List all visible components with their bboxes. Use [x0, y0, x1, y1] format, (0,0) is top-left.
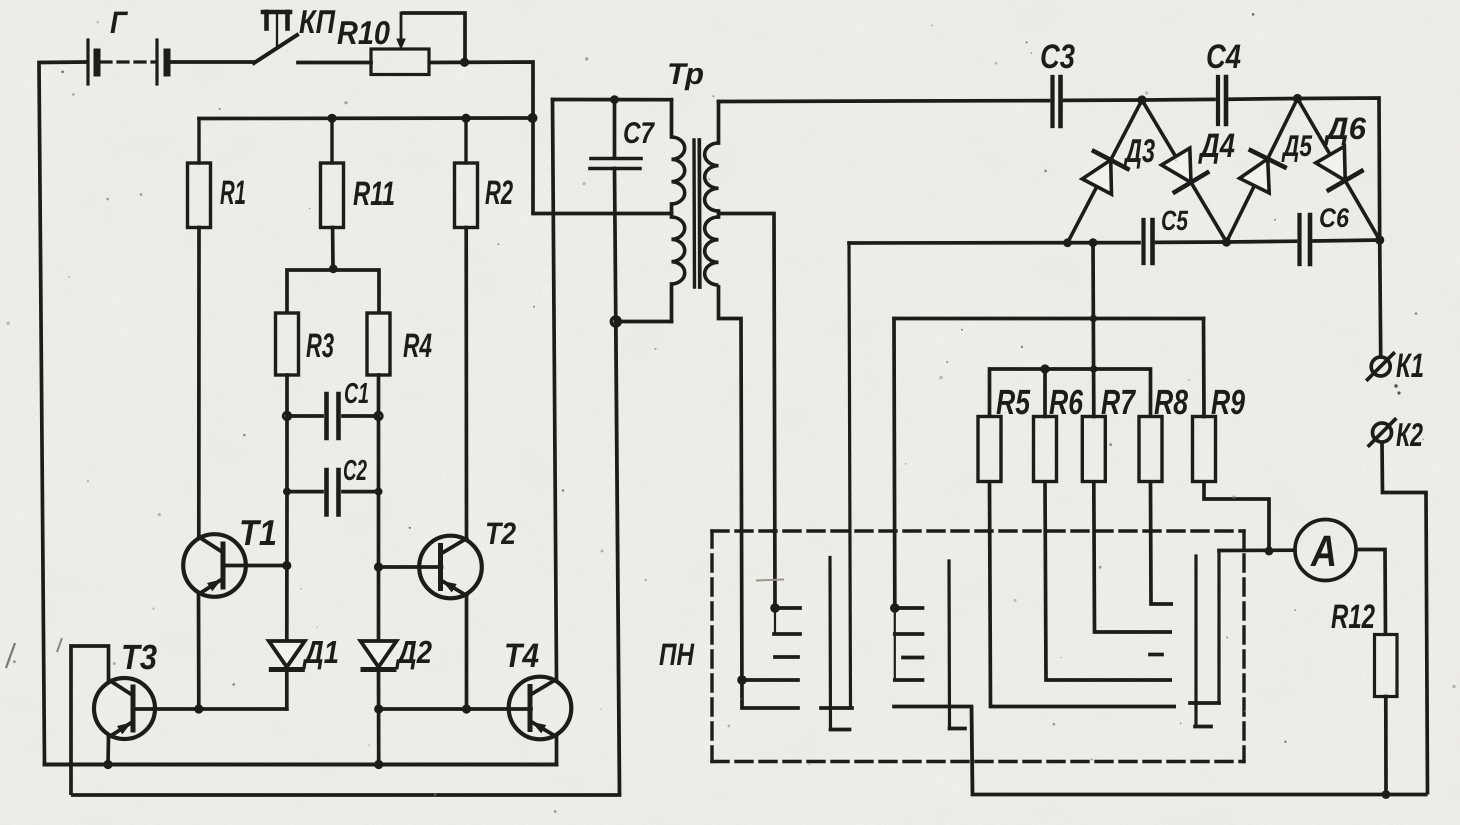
wire secondary tap to electrode pin [719, 214, 776, 609]
node top 2 (C4/Д5/Д6) [1293, 94, 1302, 103]
wire left rail (battery minus to bottom bus) [39, 62, 88, 765]
resistor R7 [1082, 417, 1105, 482]
wire centre tap line [533, 212, 672, 216]
junction R10 right terminal [460, 58, 469, 67]
wire right rail C2 to D2 [377, 492, 381, 641]
svg-text:Тр: Тр [667, 58, 704, 91]
transformer Тр secondary lead bottom [719, 285, 743, 708]
node R3/R4 split [329, 264, 338, 273]
svg-text:R2: R2 [485, 174, 513, 212]
wire primary top line [553, 98, 672, 102]
electrode group 2 plate A (from multiplier) [849, 243, 851, 708]
resistor R6 [1034, 417, 1057, 482]
wire T4 collector up to primary top [553, 100, 557, 680]
electrode group 3 pin bar d [895, 678, 923, 682]
wire R10 wiper loop to right terminal [401, 13, 465, 62]
battery Г cell 1 short plate [94, 52, 101, 73]
node R12 / bottom line [1382, 790, 1391, 799]
node bottom Д3 [1063, 238, 1072, 247]
transformer Тр primary winding lower half [672, 217, 685, 284]
svg-text:Д4: Д4 [1198, 127, 1235, 165]
wire T2 base [379, 565, 442, 569]
wire R1 to T1 collector [197, 228, 201, 538]
scan scratch bottom left [6, 643, 15, 668]
divider box ПН bottom edge (dashed) [712, 760, 1244, 763]
electrode group 4 plate B foot [1190, 701, 1219, 705]
svg-text:А: А [1310, 527, 1337, 576]
resistor R2 [464, 118, 467, 163]
capacitor C1 right lead [343, 414, 379, 418]
capacitor C2 left lead [287, 490, 322, 494]
wire T2 emitter down [465, 596, 469, 710]
svg-text:Д3: Д3 [1123, 132, 1155, 169]
wire T3 collector elbow [71, 646, 109, 795]
wire primary bottom link [616, 320, 672, 324]
scan smudge in ПН box [756, 580, 784, 581]
transformer Тр secondary tap stub [717, 211, 721, 217]
node C1 right [375, 412, 383, 420]
transformer Тр primary winding upper half [672, 137, 685, 204]
node R2 top [461, 114, 470, 123]
wire right cross-coupling rail C1-C2 [377, 416, 381, 492]
terminal К1 circle [1371, 357, 1390, 376]
wire feed node down to R7 [1091, 243, 1096, 417]
wire R7 bottom to gap stack [1094, 482, 1172, 633]
node bottom right (Д6/К1 feed) [1375, 235, 1384, 244]
electrode group 1 pin bar c (floating) [775, 655, 798, 659]
wire R2 to T2 collector [464, 228, 468, 539]
electrode group 3 pin bar a [899, 606, 922, 610]
node Д2 / T4 base [374, 704, 383, 713]
wire C3 to node [1065, 98, 1143, 102]
electrode group 4 plate A tick [1195, 725, 1211, 729]
transformer Тр primary lead bottom [670, 284, 674, 322]
electrode group 1 return bar [742, 678, 798, 682]
electrode group 2b plate foot [950, 727, 966, 731]
node group 1 return [737, 675, 747, 685]
electrode group 2 plate B [828, 558, 832, 730]
electrode group 4 plate A [1194, 556, 1197, 725]
svg-text:R9: R9 [1211, 383, 1245, 422]
svg-text:R1: R1 [220, 174, 246, 212]
transformer Тр secondary lead top [717, 102, 721, 144]
svg-text:Т3: Т3 [121, 638, 157, 677]
terminal К1 slash [1368, 354, 1394, 380]
node C1 left [283, 412, 291, 420]
diode Д2 [361, 641, 397, 667]
transformer Тр primary lead top [670, 100, 674, 137]
terminal К2 slash [1369, 420, 1395, 446]
wire secondary top line [719, 99, 1049, 104]
scan scratch near T3 [57, 638, 62, 652]
resistor R9 [1193, 417, 1216, 482]
wire R5-R8 top bus [990, 369, 1151, 417]
electrode group 2 plate A foot [821, 706, 852, 710]
wire R12 bottom [1384, 697, 1388, 795]
svg-text:R12: R12 [1331, 598, 1375, 636]
svg-text:С7: С7 [623, 117, 655, 150]
transformer Тр secondary winding lower half [705, 217, 719, 285]
capacitor C4 plates [1216, 77, 1220, 124]
electrode group 1 pin bar b [774, 632, 800, 636]
wire y318 right drop to R9 [1202, 319, 1206, 417]
switch КП push-button right leg [285, 12, 290, 29]
wire left cross-coupling rail C1-C2 [285, 416, 289, 492]
svg-text:R8: R8 [1154, 383, 1188, 422]
wire C6 to right node [1314, 240, 1380, 241]
node T1 base [282, 561, 291, 570]
node T3 base / T1 emitter [194, 704, 203, 713]
wire R5 bottom to gap stack [990, 482, 1177, 707]
svg-text:Г: Г [110, 5, 129, 40]
wire К2 to bottom right corner [1382, 442, 1428, 795]
diode Д3 [1068, 100, 1143, 243]
wire T1 base [223, 564, 287, 568]
svg-text:Т1: Т1 [239, 512, 277, 553]
electrode group 4 plate B [1217, 551, 1220, 704]
wire top right corner [1298, 98, 1380, 240]
junction bus / centre-tap feed [528, 113, 538, 123]
scan speckles [931, 24, 933, 26]
wire R6 bottom to gap stack [1045, 482, 1172, 681]
switch КП push-button cap [263, 10, 290, 15]
wire R3 to C1 node [285, 375, 289, 416]
svg-text:R5: R5 [996, 383, 1030, 422]
svg-text:R7: R7 [1101, 383, 1136, 422]
wire T4 emitter down [555, 738, 559, 765]
resistor R8 [1139, 417, 1162, 482]
electrode group 3 pin bar b [895, 632, 923, 636]
capacitor C2 right lead [343, 490, 379, 494]
svg-text:ПН: ПН [659, 637, 694, 672]
svg-text:К2: К2 [1396, 416, 1423, 453]
wire Д2 cathode down to bottom bus [377, 669, 381, 765]
electrode group 1 return plate [742, 706, 798, 710]
wire T3 emitter down [106, 737, 110, 765]
junction feed/y318 [1090, 315, 1097, 322]
wire bottom bus 1 (emitters) [45, 763, 557, 767]
node T2 base [374, 562, 383, 571]
node ammeter input [1265, 547, 1274, 556]
node Д2 / bottom bus [374, 760, 383, 769]
wire Д1 cathode to T3 base line [285, 669, 289, 709]
svg-text:С1: С1 [344, 378, 369, 410]
wire R11 to R3/R4 node [331, 228, 335, 269]
electrode group 2 plate B foot [831, 728, 850, 732]
ammeter A body [1295, 520, 1356, 581]
diode Д4 [1142, 100, 1227, 242]
svg-text:С4: С4 [1206, 38, 1241, 76]
wire C4 to node [1230, 97, 1298, 101]
terminal К2 circle [1373, 423, 1392, 442]
electrode group 1 pin bar a [780, 606, 801, 610]
electrode group 3 pin bar c (floating) [903, 656, 923, 660]
diode Д5 [1227, 99, 1298, 243]
resistor R5 [978, 417, 1001, 482]
node bottom feed (to divider chain) [1089, 238, 1098, 247]
electrode group 2b plate [947, 561, 951, 729]
electrode group 3 return plate [894, 705, 972, 709]
svg-text:Т2: Т2 [485, 516, 516, 551]
wire ammeter to R12 [1356, 550, 1386, 635]
transistor T4 [509, 677, 572, 740]
wire R4 to C1 node [377, 375, 381, 416]
wire battery to switch [167, 60, 254, 64]
svg-text:КП: КП [299, 3, 336, 40]
node R11 top [327, 114, 336, 123]
capacitor C7 bottom lead [615, 169, 616, 322]
battery Г cell 2 short plate [164, 52, 171, 73]
diode Д6 [1298, 99, 1380, 241]
scan specks under К1 [1394, 384, 1398, 388]
wire y318 left drop to electrode pin [892, 319, 896, 605]
wire switch to R10 [298, 61, 371, 65]
svg-text:С5: С5 [1161, 205, 1188, 236]
wire T1 emitter down [197, 594, 201, 709]
wire T3 base line [133, 707, 287, 711]
capacitor C6 plates [1297, 215, 1301, 264]
resistor R4 [367, 313, 390, 375]
wire battery inter-cell (dashed) [101, 60, 155, 63]
capacitor C5 plates [1141, 220, 1145, 263]
wire multiplier bottom line left [849, 241, 1139, 245]
node C2 left [283, 488, 291, 496]
divider box ПН right edge (dashed) [1242, 531, 1245, 762]
resistor R3 [276, 313, 299, 375]
wire R10 to centre-tap feed [429, 62, 533, 214]
node T3 emitter / bottom bus [103, 760, 112, 769]
svg-text:Т4: Т4 [504, 637, 539, 675]
wire R6 top lead [1043, 369, 1047, 417]
node T4 base / T2 emitter [462, 704, 471, 713]
resistor R12 [1375, 635, 1398, 697]
wire node to C6 [1227, 239, 1296, 244]
svg-text:Д1: Д1 [301, 634, 339, 670]
svg-text:Д2: Д2 [394, 634, 432, 670]
node C7 top [610, 95, 619, 104]
capacitor C7 plates [591, 157, 641, 161]
electrode group 1 pin stem [774, 613, 776, 635]
transistor T3 [94, 678, 155, 739]
svg-text:С3: С3 [1040, 38, 1075, 76]
node R6 top [1040, 364, 1049, 373]
resistor R11 [330, 118, 333, 163]
divider box ПН left edge (dashed) [710, 531, 713, 762]
svg-text:С2: С2 [343, 455, 367, 487]
wire node to terminal К1 [1380, 240, 1381, 354]
svg-text:С6: С6 [1319, 203, 1350, 233]
gap stack middle tick [1150, 653, 1162, 657]
resistor R10 wiper arrow [400, 13, 403, 44]
resistor R1 [197, 119, 200, 164]
junction feed/top bus [1090, 365, 1097, 372]
node bottom Д4/Д5 [1222, 237, 1231, 246]
node C2 right [375, 488, 383, 496]
node C7 bottom [611, 317, 620, 326]
transformer Тр primary tap stub [670, 204, 674, 217]
wire bottom bus 2 (T3 collector to primary bottom) [71, 322, 620, 796]
electrode group 3 pin stem [894, 613, 896, 681]
resistor R10 (rheostat body) [371, 49, 429, 75]
transistor T2 [419, 536, 482, 599]
capacitor C1 plates [324, 394, 329, 438]
wire left rail C2 to D1 [285, 492, 289, 641]
svg-text:К1: К1 [1396, 347, 1424, 385]
electrode group 3 pin circle [890, 603, 900, 613]
switch КП push-button left leg [264, 12, 269, 29]
wire T4 base line [379, 707, 531, 711]
wire R9 bottom to ammeter node [1204, 482, 1269, 552]
wire electrode B to ammeter [1219, 548, 1295, 552]
diode Д1 [269, 641, 305, 667]
wire gap-stack return to bottom line [972, 707, 1428, 795]
wire R9/electrode line y318 [894, 317, 1204, 321]
capacitor C1 left lead [287, 414, 322, 418]
capacitor C2 plates [324, 470, 329, 515]
wire R3/R4 split bar [287, 270, 379, 313]
transformer Тр core [692, 140, 696, 287]
capacitor C7 top lead [613, 100, 617, 158]
transformer Тр secondary winding upper half [705, 143, 719, 211]
battery Г cell 1 long plate [86, 40, 89, 84]
switch КП push-button stem [276, 12, 278, 45]
node top 1 (C3/Д3/Д4/C4) [1137, 95, 1146, 104]
wire base bus y118 [199, 116, 533, 120]
svg-text:R4: R4 [403, 327, 432, 365]
capacitor C3 plates [1050, 77, 1054, 126]
wire node to C4 [1142, 98, 1214, 102]
battery Г cell 2 long plate [155, 40, 158, 84]
svg-text:R11: R11 [353, 175, 395, 213]
transistor T1 [183, 534, 246, 597]
divider box ПН top edge (dashed) [712, 529, 1244, 532]
wire C5 to node [1157, 240, 1227, 244]
switch КП blade [254, 35, 297, 63]
svg-text:R10: R10 [337, 14, 391, 51]
svg-text:Д6: Д6 [1323, 111, 1367, 146]
svg-text:R6: R6 [1049, 383, 1083, 422]
wire R8 bottom to gap stack [1151, 482, 1174, 605]
svg-text:Д5: Д5 [1281, 130, 1313, 163]
electrode group 1 pin circle [770, 603, 780, 613]
svg-text:R3: R3 [306, 327, 334, 365]
